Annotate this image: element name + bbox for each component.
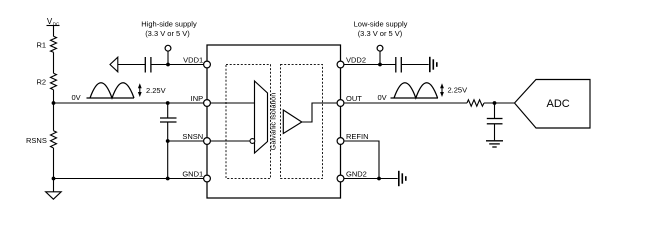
capacitor C2 input filter <box>160 118 177 122</box>
svg-text:2.25V: 2.25V <box>448 86 468 95</box>
svg-text:0V: 0V <box>378 93 387 102</box>
pin REFIN <box>337 138 344 145</box>
wire SNSN internal <box>210 140 250 142</box>
ground ADC filter earth <box>486 141 503 147</box>
pin INP <box>204 100 211 107</box>
svg-text:R2: R2 <box>37 77 47 86</box>
ground low-side rotated earth <box>430 57 437 72</box>
capacitor C3 low-side decoupling <box>396 57 402 73</box>
svg-text:Galvanic Isolation: Galvanic Isolation <box>268 93 277 151</box>
node low-side supply junction <box>378 63 382 67</box>
resistor R1 <box>51 36 57 52</box>
wire C4 to ground <box>494 124 496 141</box>
node GND1 junction <box>166 177 170 181</box>
wire SNSN line <box>168 140 204 142</box>
wire resistor to ADC <box>484 102 515 104</box>
svg-text:R1: R1 <box>37 40 47 49</box>
pin OUT <box>337 100 344 107</box>
node Vdc supply terminal <box>47 25 60 27</box>
svg-text:OUT: OUT <box>346 94 362 103</box>
svg-text:INP: INP <box>191 94 204 103</box>
pin SNSN <box>204 138 211 145</box>
wire INP internal <box>210 102 254 104</box>
op-amp U1 isolated amplifier body <box>207 45 341 198</box>
label Vdc <box>47 17 60 26</box>
wire buffer to OUT pin <box>302 103 337 122</box>
pin GND2 <box>337 175 344 182</box>
node INP-line left junction <box>52 101 56 105</box>
resistor R2 <box>51 73 57 90</box>
wire GND2 to ground <box>344 178 398 180</box>
ground high-side supply open triangle <box>110 57 118 72</box>
inversion bubble on SNSN input <box>250 139 255 144</box>
wire ground to C1 <box>118 64 146 66</box>
arrow 2.25V input amplitude <box>138 83 142 97</box>
pin GND1 <box>204 175 211 182</box>
capacitor C4 ADC input filter <box>487 119 503 124</box>
node high-side supply junction <box>166 63 170 67</box>
pin labels right <box>346 56 369 179</box>
label Low-side supply <box>354 20 408 38</box>
label High-side supply <box>141 20 197 38</box>
svg-text:0V: 0V <box>72 93 81 102</box>
node REFIN-GND2 junction <box>377 177 381 181</box>
node GND1-line left junction <box>52 177 56 181</box>
node SNSN junction <box>166 139 170 143</box>
ground GND2 rotated earth <box>399 171 406 186</box>
wire C1 to VDD1 pin <box>151 64 204 66</box>
svg-text:2.25V: 2.25V <box>146 86 166 95</box>
modulator trapezoid <box>255 81 268 153</box>
resistor series output filter <box>467 100 484 106</box>
svg-text:(3.3 V or 5 V): (3.3 V or 5 V) <box>145 29 190 38</box>
svg-text:GND1: GND1 <box>182 170 203 179</box>
wire GND1 line <box>54 178 204 180</box>
wire R1 to R2 <box>53 52 55 73</box>
svg-text:(3.3 V or 5 V): (3.3 V or 5 V) <box>358 29 403 38</box>
capacitor C1 high-side decoupling <box>145 57 151 73</box>
svg-text:RSNS: RSNS <box>26 136 47 145</box>
svg-text:SNSN: SNSN <box>182 132 203 141</box>
wire C3 to ground <box>401 64 428 66</box>
svg-text:REFIN: REFIN <box>346 132 369 141</box>
node filter junction <box>493 101 497 105</box>
wire R2 to INP node <box>53 90 55 103</box>
svg-text:VDD1: VDD1 <box>183 56 203 65</box>
svg-text:VDD2: VDD2 <box>346 56 366 65</box>
node low-side supply terminal <box>377 45 383 51</box>
wire OUT line <box>344 102 467 104</box>
resistor RSNS <box>51 131 57 148</box>
wire REFIN to GND2 line <box>344 141 379 179</box>
ground high-side triangle <box>46 192 62 199</box>
input waveform rectified sine <box>87 83 135 98</box>
output waveform rectified sine <box>391 83 439 98</box>
wire to high-side ground <box>53 179 55 192</box>
wire VDD2 pin to C3 <box>344 64 396 66</box>
svg-text:High-side supply: High-side supply <box>141 20 197 29</box>
op-amp output buffer triangle <box>283 110 302 134</box>
arrow 2.25V output amplitude <box>440 83 444 97</box>
svg-text:ADC: ADC <box>547 98 570 110</box>
pin VDD2 <box>337 61 344 68</box>
wire Vdc to R1 <box>53 26 55 37</box>
svg-text:GND2: GND2 <box>346 170 367 179</box>
pin labels left <box>182 56 203 179</box>
wire supply stem <box>167 51 169 64</box>
svg-text:Low-side supply: Low-side supply <box>354 20 408 29</box>
wire INP line <box>54 102 204 104</box>
wire RSNS to GND1 line <box>53 148 55 179</box>
high-side dashed block <box>226 65 271 179</box>
wire supply stem low-side <box>379 51 381 64</box>
wire junction to C4 <box>494 103 496 119</box>
wire node to RSNS <box>53 103 55 131</box>
wire INP line to C2 <box>167 103 169 118</box>
node high-side supply terminal <box>165 45 171 51</box>
node C2 top junction <box>166 101 170 105</box>
pin VDD1 <box>204 61 211 68</box>
low-side dashed block <box>281 65 323 179</box>
ADC block <box>515 80 591 129</box>
wire C2 to SNSN and GND1 line <box>167 122 169 179</box>
